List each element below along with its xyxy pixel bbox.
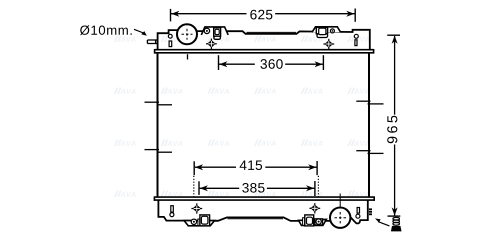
bottom-left small rect + circle bbox=[171, 206, 174, 212]
top tank outline bbox=[158, 30, 370, 51]
leader arrow to corner bbox=[378, 222, 389, 226]
left column bbox=[157, 54, 159, 197]
top-left bracket bbox=[201, 27, 228, 39]
label Ø10mm. with leader bbox=[80, 25, 132, 35]
tick below band at filler centerline bbox=[187, 54, 189, 59]
filler neck circle bbox=[177, 24, 197, 44]
diamonds top bbox=[206, 39, 217, 49]
dimension 965 (vertical) bbox=[387, 35, 400, 216]
bolt symbol bottom right bbox=[393, 217, 400, 225]
bottom-left bracket bbox=[184, 215, 215, 226]
ridged tab right edge bbox=[369, 208, 372, 215]
top-left small circle + rect bbox=[168, 34, 172, 38]
bottom band bbox=[154, 196, 374, 201]
outlet circle bbox=[339, 194, 341, 210]
dimension 415 bbox=[194, 161, 319, 197]
bottom-right small rect + circle bbox=[357, 208, 359, 214]
dimension 360 bbox=[219, 55, 324, 70]
bottom tank outline bbox=[158, 201, 367, 224]
break marks right column bbox=[356, 101, 383, 153]
dimension 385 bbox=[199, 181, 315, 196]
break marks left column bbox=[145, 102, 173, 152]
top-right small circle + rect bbox=[354, 34, 358, 38]
top band bbox=[155, 49, 374, 54]
bottom-right bracket bbox=[299, 215, 327, 226]
dimension 625 bbox=[171, 9, 356, 22]
top-right bracket bbox=[312, 27, 341, 38]
stub pipe left bbox=[147, 40, 158, 44]
right column bbox=[368, 54, 370, 197]
